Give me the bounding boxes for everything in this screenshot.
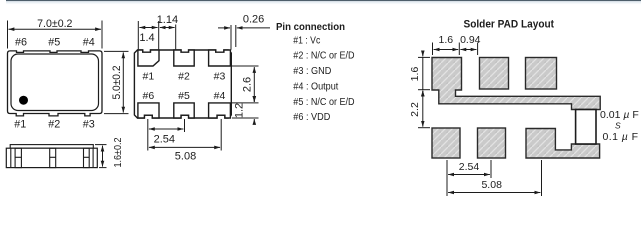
svg-text:#4 : Output: #4 : Output (293, 82, 338, 93)
dimension 5.0±0.2 (104, 51, 129, 113)
svg-text:#3: #3 (83, 118, 95, 130)
dimension 1.2 (232, 98, 259, 124)
dimension 1.6±0.2 (95, 145, 107, 168)
pad #5 (174, 103, 194, 118)
svg-text:#2: #2 (178, 70, 190, 82)
dimension 1.4 (138, 21, 158, 49)
svg-text:1.14: 1.14 (157, 14, 178, 26)
svg-text:#3 : GND: #3 : GND (293, 66, 331, 77)
svg-text:#4: #4 (83, 36, 95, 48)
dimension 1.14 (160, 25, 176, 50)
dimension 0.94 (pad gap) (460, 43, 477, 56)
svg-text:#6: #6 (143, 90, 155, 102)
pad #4 (209, 103, 231, 118)
dimension 1.6 (pad height, left) (418, 51, 430, 97)
svg-text:Solder PAD Layout: Solder PAD Layout (464, 18, 555, 30)
svg-text:5.08: 5.08 (175, 151, 196, 163)
dimension 2.2 (row gap, left) (418, 91, 430, 128)
pad #2 (174, 50, 194, 66)
svg-text:#5 : N/C or E/D: #5 : N/C or E/D (293, 97, 354, 108)
svg-text:#5: #5 (178, 90, 190, 102)
side view body (6, 148, 97, 167)
svg-text:0.01 µ F: 0.01 µ F (600, 109, 639, 121)
dimension 1.6 (pad width) (433, 43, 460, 56)
svg-text:5.08: 5.08 (481, 179, 502, 191)
dimension 7.0±0.2 (8, 21, 103, 49)
svg-text:#6: #6 (15, 36, 27, 48)
package outline (bottom view) (134, 50, 231, 118)
solder pad 4 with capacitor bottom electrode (526, 129, 600, 159)
svg-text:2.54: 2.54 (459, 161, 480, 173)
svg-text:#1: #1 (143, 70, 155, 82)
dimension 5.08 (solder layout) (447, 160, 542, 196)
svg-text:1.6: 1.6 (409, 67, 421, 82)
side view lid (10, 145, 93, 149)
dimension 2.6 (232, 66, 259, 103)
svg-text:5.0±0.2: 5.0±0.2 (111, 66, 123, 100)
svg-text:Pin connection: Pin connection (276, 22, 345, 33)
side view pad 2 (50, 148, 56, 167)
svg-text:1.2: 1.2 (234, 103, 246, 118)
svg-text:0.26: 0.26 (243, 14, 264, 26)
solder pad 6 (432, 128, 460, 158)
svg-text:#2: #2 (48, 118, 60, 130)
svg-text:S: S (615, 121, 621, 131)
solder pad 3 (526, 58, 557, 90)
svg-text:#6 : VDD: #6 : VDD (293, 112, 330, 123)
pad #6 (138, 103, 159, 118)
bypass capacitor (576, 110, 596, 145)
svg-text:1.4: 1.4 (139, 32, 154, 44)
svg-text:7.0±0.2: 7.0±0.2 (37, 18, 72, 30)
top border bar (6, 0, 641, 1)
svg-text:1.6: 1.6 (438, 34, 453, 46)
svg-text:0.1 µ F: 0.1 µ F (603, 131, 639, 143)
solder pad 2 (480, 58, 509, 90)
dimension 0.26 (218, 25, 270, 50)
pad #1 (chamfered) (138, 50, 159, 66)
svg-text:0.94: 0.94 (460, 34, 481, 46)
svg-text:#3: #3 (214, 70, 226, 82)
svg-text:#5: #5 (48, 36, 60, 48)
svg-text:#2 : N/C or E/D: #2 : N/C or E/D (293, 51, 354, 62)
pin 1 index dot (19, 96, 28, 105)
svg-text:#4: #4 (214, 90, 226, 102)
svg-text:#1 : Vc: #1 : Vc (293, 36, 320, 47)
svg-text:2.6: 2.6 (242, 77, 254, 92)
dimension 2.54 (solder layout) (447, 160, 491, 178)
solder pad 5 (478, 128, 506, 158)
side view terminal line right (92, 148, 94, 167)
dimension 5.08 (bottom view) (148, 119, 221, 151)
dimension 2.54 (bottom view) (148, 119, 185, 132)
package body outline (top view) (8, 51, 103, 116)
solder pad 1 with trace and capacitor top electrode (432, 58, 600, 110)
svg-text:#1: #1 (14, 118, 26, 130)
svg-text:1.6±0.2: 1.6±0.2 (112, 137, 124, 167)
package lid (inner outline) (11, 54, 99, 111)
side view pad 1 (15, 148, 21, 167)
side view terminal line left (10, 148, 12, 167)
svg-text:2.54: 2.54 (154, 134, 175, 146)
pad #3 (209, 50, 231, 66)
side view pad 3 (84, 148, 90, 167)
svg-text:2.2: 2.2 (409, 102, 421, 117)
